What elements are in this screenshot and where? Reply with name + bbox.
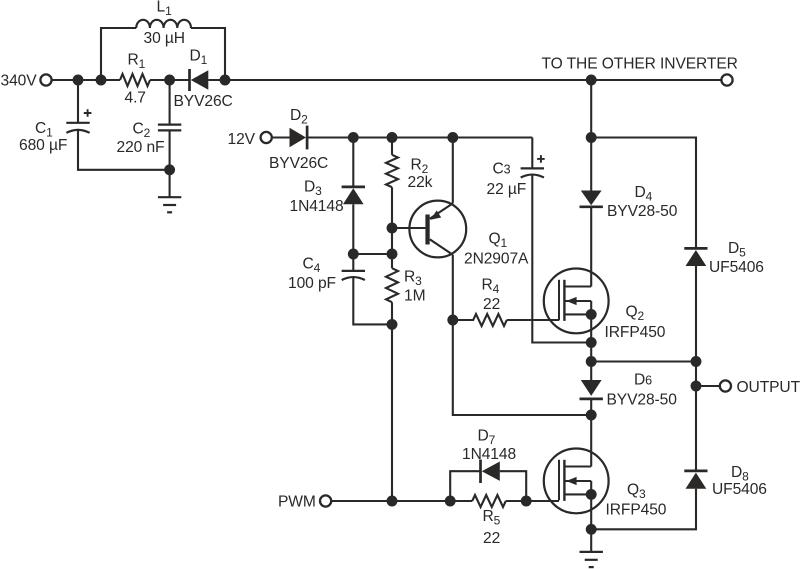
wire: Q3 drain feed	[590, 415, 592, 467]
svg-text:BYV26C: BYV26C	[269, 155, 328, 172]
svg-text:1N4148: 1N4148	[290, 198, 344, 215]
junction: OUTPUT node	[691, 381, 702, 392]
resistor R2	[386, 155, 398, 187]
resistor R1	[120, 74, 150, 86]
wire: C3 bottom lead down and right to Q2 source node	[532, 174, 591, 342]
svg-text:IRFP450: IRFP450	[605, 324, 666, 341]
diode D5 (UF5406)	[684, 248, 707, 266]
wire: 12V terminal to D2	[272, 136, 290, 138]
wire: output column OUTPUT to D8	[695, 386, 697, 471]
MOSFET Q3 (IRFP450)	[544, 449, 609, 514]
wire: D4 cathode to Q2 drain	[590, 207, 592, 287]
junction: PWM / R3 column	[387, 496, 398, 507]
wire: OUTPUT tap	[696, 385, 720, 387]
junction: R2 / R3 node	[387, 249, 398, 260]
junction: R3 / C4 bottom node	[387, 319, 398, 330]
wire: C1 bottom lead to C2 ground node	[78, 129, 170, 170]
junction: Q2 source / D5 crossbar	[586, 356, 597, 367]
svg-text:2N2907A: 2N2907A	[464, 251, 529, 268]
svg-text:220 nF: 220 nF	[117, 139, 165, 156]
junction: 12V rail / R2	[387, 132, 398, 143]
svg-text:30 µH: 30 µH	[144, 30, 185, 47]
svg-text:22 µF: 22 µF	[487, 181, 527, 198]
svg-text:22k: 22k	[408, 174, 433, 191]
wire: 340V rail segment A	[52, 79, 120, 81]
capacitor C4	[342, 271, 365, 280]
svg-text:680 µF: 680 µF	[19, 137, 67, 154]
terminal PWM	[320, 495, 331, 506]
junction: Q1 collector / R4	[447, 315, 458, 326]
wire: D4 top lead	[590, 138, 592, 191]
junction: HV rail / inverter column	[586, 75, 597, 86]
junction: D6 cathode / Q1 collector	[586, 410, 597, 421]
svg-text:100 pF: 100 pF	[288, 275, 336, 292]
wire: PWM terminal to R5	[331, 500, 472, 502]
terminal 12V	[261, 132, 272, 143]
junction: D5 bottom / crossbar	[691, 356, 702, 367]
terminal 340V	[40, 74, 51, 85]
wire: C4 top lead	[352, 254, 354, 271]
wire: C2 bottom lead	[169, 130, 171, 169]
capacitor C2	[158, 125, 181, 131]
resistor R3	[386, 268, 398, 302]
resistor R5	[472, 495, 506, 507]
wire: D3 anode to C4 node	[352, 204, 354, 254]
wire: D8 anode down and left to ground node	[591, 489, 696, 530]
capacitor C3	[521, 155, 545, 177]
wire: Q2 source node across to D5 bottom	[591, 360, 696, 362]
wire: Q1 collector down to D6 node	[453, 255, 591, 415]
wire: 12V rail (D2 to C3 corner)	[307, 136, 532, 138]
terminal OUTPUT	[720, 380, 731, 391]
wire: Q3 source to ground node	[590, 494, 592, 529]
junction: Q1 base node	[387, 223, 398, 234]
svg-text:BYV26C: BYV26C	[174, 93, 233, 110]
wire: crossbar D3/C4 node to R2/R3 node	[353, 253, 392, 255]
resistor R4	[453, 314, 507, 326]
junction: HV column / D5 branch	[586, 132, 597, 143]
wire: R2 bottom to Q1 base node to R3 top	[391, 187, 393, 268]
diode D7 (1N4148)	[481, 460, 500, 484]
junction: C1 / C2 ground node	[164, 164, 175, 175]
wire: C2 top lead	[169, 80, 171, 125]
MOSFET Q2 (IRFP450)	[544, 269, 609, 334]
wire: D7 bypass loop right leg	[500, 471, 526, 501]
svg-text:C3: C3	[493, 161, 511, 178]
wire: C3 top lead	[531, 138, 533, 169]
junction: R1 / D1 / C2	[164, 75, 175, 86]
wire: Q1 emitter to 12V rail	[452, 138, 454, 204]
junction: C3 return / Q2 source	[586, 337, 597, 348]
diode D4 (BYV28-50)	[580, 191, 603, 207]
wire: D7 bypass loop left leg	[450, 471, 480, 501]
svg-text:UF5406: UF5406	[709, 259, 764, 276]
wire: D5 bottom lead	[695, 266, 697, 362]
svg-text:22: 22	[483, 296, 500, 313]
inductor L1	[136, 20, 191, 28]
wire: D3 top lead	[352, 138, 354, 187]
wire: C4 bottom lead to R3 bottom node	[353, 277, 392, 325]
wire: Q1 base wire	[392, 227, 425, 229]
wire: ground stub below C2 node	[169, 170, 171, 197]
junction: D1 / L1 right	[220, 75, 231, 86]
wire: top HV rail to other-inverter terminal	[208, 79, 721, 81]
diode D8 (UF5406)	[684, 471, 707, 489]
svg-text:1M: 1M	[404, 288, 425, 305]
svg-text:4.7: 4.7	[125, 90, 146, 107]
svg-text:D6: D6	[634, 372, 652, 389]
junction: 12V rail / Q1 emitter	[447, 132, 458, 143]
junction: 340V / C1	[73, 75, 84, 86]
junction: R5 right / D7	[521, 496, 532, 507]
wire: C1 top lead	[77, 80, 79, 123]
junction: R5 left / D7	[445, 496, 456, 507]
svg-text:22: 22	[483, 530, 500, 547]
diode D3 (1N4148)	[342, 187, 365, 204]
svg-text:PWM: PWM	[278, 494, 316, 511]
wire: bootstrap node to D5 branch	[591, 138, 696, 249]
wire: 340V rail segment B (R1 to D1)	[150, 79, 190, 81]
svg-text:BYV28-50: BYV28-50	[607, 392, 678, 409]
diode D2 (BYV26C)	[290, 126, 308, 150]
wire: R4 to Q2 gate	[507, 319, 559, 321]
diode D6 (BYV28-50)	[580, 380, 603, 399]
junction: 12V rail / D3	[348, 132, 359, 143]
ground (left)	[158, 197, 181, 212]
junction: 340V / L1 left	[96, 75, 107, 86]
ground (right)	[580, 552, 603, 567]
diode D1 (BYV26C)	[190, 69, 209, 91]
junction: Q3 source	[586, 489, 597, 500]
svg-text:UF5406: UF5406	[712, 481, 767, 498]
wire: R5 to Q3 gate	[506, 500, 559, 502]
wire: D6 cathode to Q3 drain node	[590, 399, 592, 415]
svg-text:IRFP450: IRFP450	[606, 502, 667, 519]
wire: L1 right leg	[191, 28, 225, 80]
svg-text:1N4148: 1N4148	[462, 446, 516, 463]
transistor Q1 (2N2907A PNP)	[409, 201, 466, 258]
junction: D3 anode / C4	[348, 249, 359, 260]
wire: R2 top lead	[391, 138, 393, 155]
wire: ground stub below Q3	[590, 529, 592, 552]
svg-text:12V: 12V	[228, 131, 256, 148]
svg-text:TO THE OTHER INVERTER: TO THE OTHER INVERTER	[542, 56, 738, 73]
svg-text:BYV28-50: BYV28-50	[607, 203, 678, 220]
wire: output column D5/OUTPUT	[695, 362, 697, 387]
wire: HV rail drop to bootstrap feed node	[590, 80, 592, 138]
wire: Q2 source chain down to D6	[590, 314, 592, 380]
wire: R3 bottom to PWM line	[391, 302, 393, 501]
svg-text:340V: 340V	[1, 73, 38, 90]
terminal TO THE OTHER INVERTER	[721, 74, 732, 85]
junction: Q3 ground node	[586, 524, 597, 535]
junction: Q2 source	[586, 309, 597, 320]
svg-text:OUTPUT: OUTPUT	[737, 379, 800, 396]
wire: L1 left leg	[101, 28, 136, 80]
capacitor C1	[66, 109, 91, 133]
